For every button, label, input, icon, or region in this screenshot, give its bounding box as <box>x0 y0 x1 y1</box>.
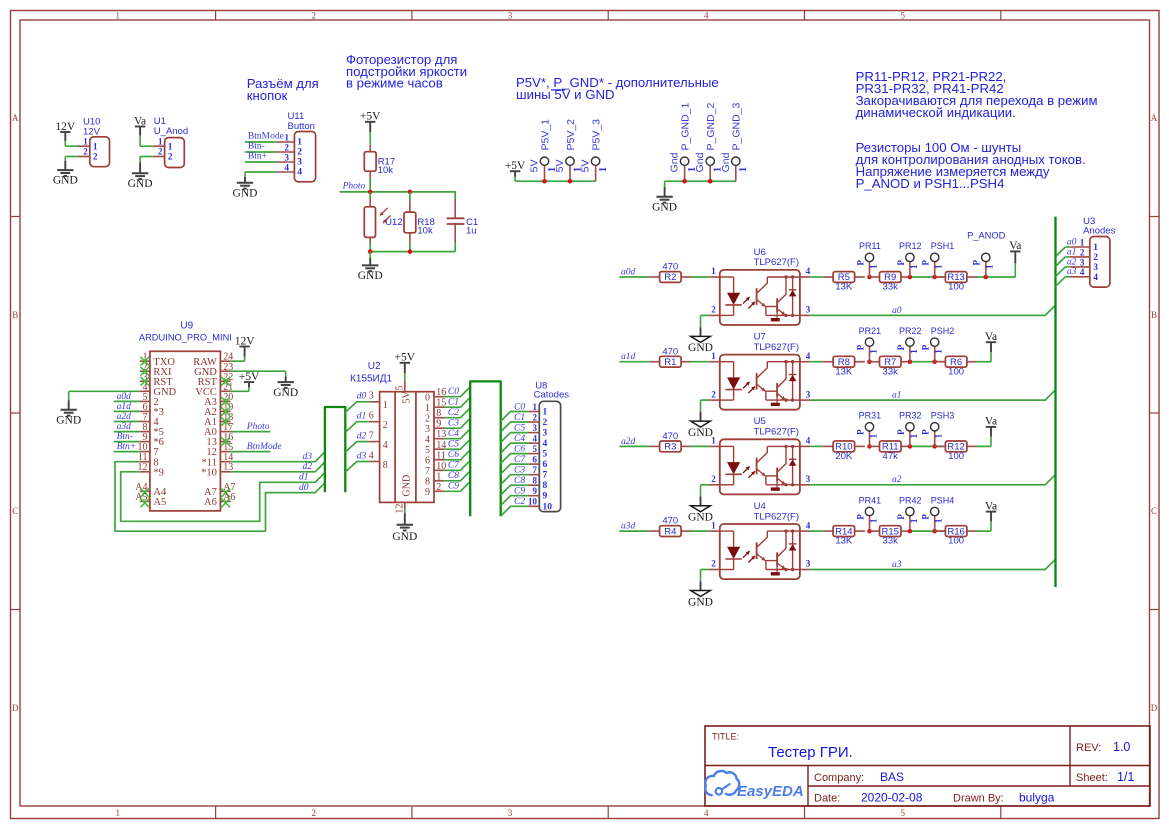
svg-text:47k: 47k <box>883 451 899 462</box>
svg-text:GND: GND <box>652 201 677 213</box>
svg-text:6: 6 <box>369 411 374 422</box>
svg-text:20K: 20K <box>835 451 853 462</box>
svg-text:4: 4 <box>383 440 388 451</box>
svg-text:C0: C0 <box>448 387 459 397</box>
svg-text:R1: R1 <box>664 357 676 368</box>
svg-text:10: 10 <box>543 502 553 512</box>
svg-text:8: 8 <box>533 476 538 486</box>
svg-text:C2: C2 <box>448 408 459 418</box>
svg-text:P: P <box>855 260 865 266</box>
svg-text:динамической индикации.: динамической индикации. <box>856 105 1016 120</box>
svg-text:2: 2 <box>383 420 388 431</box>
svg-text:10: 10 <box>528 497 538 507</box>
svg-text:100: 100 <box>948 282 964 293</box>
svg-text:5: 5 <box>543 450 548 460</box>
svg-text:P5V_1: P5V_1 <box>539 119 551 151</box>
svg-text:13K: 13K <box>835 536 853 547</box>
svg-text:в режиме часов: в режиме часов <box>346 76 443 91</box>
svg-text:5: 5 <box>900 10 905 20</box>
svg-text:a3: a3 <box>1067 267 1077 277</box>
svg-text:A6: A6 <box>204 497 217 508</box>
svg-text:3: 3 <box>806 305 811 315</box>
svg-text:1: 1 <box>158 136 163 146</box>
svg-text:4: 4 <box>806 520 811 530</box>
svg-text:Anodes: Anodes <box>1083 225 1115 236</box>
svg-text:C5: C5 <box>514 423 525 433</box>
svg-text:*9: *9 <box>153 467 164 478</box>
svg-text:PR42: PR42 <box>899 495 922 505</box>
svg-text:a3d: a3d <box>621 522 636 532</box>
svg-text:7: 7 <box>425 466 430 477</box>
svg-text:1/1: 1/1 <box>1117 770 1134 784</box>
svg-text:1: 1 <box>985 264 995 269</box>
svg-text:2: 2 <box>711 474 716 484</box>
svg-text:1: 1 <box>909 349 919 354</box>
svg-text:PR11: PR11 <box>859 241 881 251</box>
svg-text:BtnMode: BtnMode <box>248 132 284 142</box>
svg-text:C8: C8 <box>514 476 525 486</box>
svg-text:d0: d0 <box>357 392 367 402</box>
svg-text:U5: U5 <box>754 416 766 427</box>
svg-text:5: 5 <box>395 386 406 391</box>
svg-text:2: 2 <box>543 418 548 428</box>
svg-text:C6: C6 <box>514 444 525 454</box>
svg-text:*10: *10 <box>201 467 217 478</box>
svg-text:3: 3 <box>533 423 538 433</box>
svg-text:P_GND_1: P_GND_1 <box>680 102 692 150</box>
svg-text:1: 1 <box>934 518 944 523</box>
svg-text:PSH4: PSH4 <box>931 495 955 505</box>
svg-text:1: 1 <box>1080 237 1085 247</box>
svg-text:C9: C9 <box>514 487 525 497</box>
svg-text:2: 2 <box>1093 253 1098 263</box>
svg-text:GND: GND <box>358 270 383 282</box>
svg-text:470: 470 <box>662 516 678 527</box>
svg-text:EasyEDA: EasyEDA <box>737 783 804 800</box>
svg-text:d1: d1 <box>299 473 309 483</box>
svg-text:D: D <box>1151 703 1158 713</box>
svg-text:Va: Va <box>134 115 146 127</box>
svg-text:U2: U2 <box>368 361 381 372</box>
svg-text:PR22: PR22 <box>899 326 922 336</box>
svg-text:P5V_3: P5V_3 <box>591 119 603 151</box>
svg-text:C9: C9 <box>448 482 459 492</box>
svg-text:TLP627(F): TLP627(F) <box>754 257 799 268</box>
svg-text:10k: 10k <box>378 165 394 176</box>
svg-text:33k: 33k <box>883 536 899 547</box>
svg-text:PR21: PR21 <box>859 326 882 336</box>
svg-text:10: 10 <box>436 461 446 472</box>
svg-text:Va: Va <box>985 416 997 428</box>
svg-text:Va: Va <box>985 331 997 343</box>
svg-text:2: 2 <box>83 147 88 157</box>
svg-text:P: P <box>896 260 906 266</box>
svg-text:1: 1 <box>436 471 441 482</box>
svg-text:d1: d1 <box>357 412 367 422</box>
svg-text:1: 1 <box>934 349 944 354</box>
svg-text:a2: a2 <box>1067 257 1077 267</box>
svg-text:Date:: Date: <box>814 793 840 805</box>
svg-text:1: 1 <box>297 138 302 148</box>
svg-text:d3: d3 <box>357 451 367 461</box>
svg-text:GND: GND <box>56 414 81 426</box>
svg-text:a0d: a0d <box>621 267 636 277</box>
svg-text:a1d: a1d <box>117 402 132 412</box>
svg-text:Va: Va <box>985 500 997 512</box>
svg-text:a2d: a2d <box>621 437 636 447</box>
svg-text:Btn+: Btn+ <box>117 442 137 452</box>
svg-text:1: 1 <box>868 264 878 269</box>
svg-text:C3: C3 <box>514 466 525 476</box>
svg-text:B: B <box>1151 310 1157 320</box>
svg-text:12V: 12V <box>235 335 256 347</box>
svg-text:кнопок: кнопок <box>247 88 288 103</box>
svg-text:A5: A5 <box>153 497 166 508</box>
svg-text:A: A <box>12 113 19 123</box>
svg-text:U9: U9 <box>180 321 193 332</box>
svg-text:1: 1 <box>116 808 121 818</box>
svg-text:5: 5 <box>425 445 430 456</box>
svg-text:3: 3 <box>806 389 811 399</box>
svg-text:TLP627(F): TLP627(F) <box>754 427 799 438</box>
svg-text:6: 6 <box>543 460 548 470</box>
svg-text:3: 3 <box>508 808 513 818</box>
svg-text:C0: C0 <box>514 402 525 412</box>
svg-text:4: 4 <box>543 439 548 449</box>
svg-text:GND: GND <box>53 175 78 187</box>
svg-text:U4: U4 <box>754 501 766 512</box>
svg-text:P_ANOD и PSH1...PSH4: P_ANOD и PSH1...PSH4 <box>856 176 1005 191</box>
svg-text:d2: d2 <box>303 462 313 472</box>
svg-text:GND: GND <box>688 596 713 608</box>
svg-text:4: 4 <box>369 450 374 461</box>
svg-text:Тестер ГРИ.: Тестер ГРИ. <box>768 744 853 761</box>
svg-text:D: D <box>12 703 19 713</box>
svg-text:3: 3 <box>1080 257 1085 267</box>
svg-text:P: P <box>921 514 931 520</box>
svg-text:2: 2 <box>436 482 441 493</box>
svg-text:1: 1 <box>868 518 878 523</box>
svg-text:12V: 12V <box>55 121 76 133</box>
svg-text:GND: GND <box>273 387 298 399</box>
svg-text:bulyga: bulyga <box>1019 791 1055 805</box>
svg-text:1: 1 <box>711 436 716 446</box>
svg-text:33k: 33k <box>883 366 899 377</box>
svg-text:6: 6 <box>533 455 538 465</box>
svg-text:2: 2 <box>533 412 538 422</box>
svg-text:1: 1 <box>934 433 944 438</box>
svg-text:P: P <box>855 429 865 435</box>
svg-text:P: P <box>896 429 906 435</box>
svg-text:A: A <box>1151 113 1158 123</box>
svg-text:4: 4 <box>425 434 430 445</box>
svg-text:5V: 5V <box>529 160 541 173</box>
svg-text:U_Anod: U_Anod <box>154 126 188 137</box>
svg-text:2020-02-08: 2020-02-08 <box>861 791 923 805</box>
svg-text:Button: Button <box>288 121 315 132</box>
svg-text:C4: C4 <box>514 434 525 444</box>
svg-text:3: 3 <box>369 391 374 402</box>
svg-text:4: 4 <box>806 436 811 446</box>
svg-text:5: 5 <box>533 444 538 454</box>
svg-text:ARDUINO_PRO_MINI: ARDUINO_PRO_MINI <box>139 332 232 342</box>
svg-text:U7: U7 <box>754 332 766 343</box>
svg-text:a3: a3 <box>892 560 902 570</box>
svg-text:d2: d2 <box>357 431 367 441</box>
svg-text:4: 4 <box>704 10 709 20</box>
svg-text:1: 1 <box>711 520 716 530</box>
svg-text:9: 9 <box>425 487 430 498</box>
svg-text:a2d: a2d <box>117 412 132 422</box>
svg-text:C2: C2 <box>514 497 525 507</box>
svg-text:P5V_2: P5V_2 <box>565 119 577 151</box>
svg-text:PR12: PR12 <box>899 241 922 251</box>
svg-text:Gnd: Gnd <box>720 152 732 172</box>
svg-text:1: 1 <box>711 266 716 276</box>
svg-text:A6: A6 <box>223 492 235 503</box>
svg-text:GND: GND <box>128 178 153 190</box>
svg-text:d0: d0 <box>299 483 309 493</box>
svg-text:P_GND_3: P_GND_3 <box>731 102 743 150</box>
svg-text:C4: C4 <box>448 429 459 439</box>
svg-text:3: 3 <box>297 158 302 168</box>
svg-text:Gnd: Gnd <box>694 152 706 172</box>
svg-text:TLP627(F): TLP627(F) <box>754 342 799 353</box>
svg-text:P: P <box>855 514 865 520</box>
svg-text:P: P <box>896 514 906 520</box>
svg-text:P_ANOD: P_ANOD <box>967 231 1006 241</box>
svg-text:Catodes: Catodes <box>534 390 570 401</box>
svg-text:1: 1 <box>909 518 919 523</box>
svg-text:33k: 33k <box>883 282 899 293</box>
svg-text:3: 3 <box>806 474 811 484</box>
svg-text:Sheet:: Sheet: <box>1076 772 1108 784</box>
svg-text:7: 7 <box>369 430 374 441</box>
svg-text:8: 8 <box>383 460 388 471</box>
svg-text:10k: 10k <box>417 225 433 236</box>
svg-text:C5: C5 <box>448 440 459 450</box>
svg-text:4: 4 <box>533 434 538 444</box>
svg-text:13K: 13K <box>835 366 853 377</box>
svg-text:1: 1 <box>93 142 98 152</box>
svg-text:Gnd: Gnd <box>669 152 681 172</box>
svg-text:Photo: Photo <box>342 181 366 191</box>
svg-text:3: 3 <box>806 559 811 569</box>
svg-text:0: 0 <box>425 392 430 403</box>
svg-text:1: 1 <box>738 167 749 172</box>
svg-text:Va: Va <box>1009 240 1021 252</box>
svg-text:P: P <box>855 344 865 350</box>
svg-text:a2: a2 <box>892 475 902 485</box>
svg-text:100: 100 <box>948 366 964 377</box>
svg-text:1.0: 1.0 <box>1113 740 1130 754</box>
svg-text:a1: a1 <box>1067 247 1077 257</box>
svg-text:4: 4 <box>704 808 709 818</box>
svg-text:P: P <box>896 344 906 350</box>
svg-text:1: 1 <box>909 264 919 269</box>
svg-text:BtnMode: BtnMode <box>247 442 282 452</box>
svg-text:GND: GND <box>688 427 713 439</box>
svg-text:8: 8 <box>543 481 548 491</box>
svg-text:PR31: PR31 <box>859 411 882 421</box>
svg-text:3: 3 <box>285 152 290 162</box>
svg-text:Drawn By:: Drawn By: <box>953 793 1004 805</box>
svg-text:2: 2 <box>297 148 302 158</box>
svg-text:3: 3 <box>425 424 430 435</box>
svg-text:шины 5V и GND: шины 5V и GND <box>516 87 615 102</box>
svg-text:4: 4 <box>806 266 811 276</box>
svg-text:C1: C1 <box>514 413 525 423</box>
svg-text:GND: GND <box>688 512 713 524</box>
svg-text:9: 9 <box>533 486 538 496</box>
svg-text:C1: C1 <box>448 398 459 408</box>
svg-text:4: 4 <box>1093 273 1098 283</box>
svg-text:P: P <box>921 260 931 266</box>
svg-text:1: 1 <box>533 402 538 412</box>
svg-text:GND: GND <box>401 475 412 497</box>
svg-text:3: 3 <box>508 10 513 20</box>
svg-text:1: 1 <box>285 132 290 142</box>
svg-text:C7: C7 <box>448 461 460 471</box>
svg-text:7: 7 <box>543 471 548 481</box>
svg-text:1: 1 <box>598 167 609 172</box>
svg-text:U6: U6 <box>754 247 766 258</box>
svg-text:2: 2 <box>93 153 98 163</box>
svg-text:TITLE:: TITLE: <box>712 732 739 742</box>
svg-text:2: 2 <box>711 305 716 315</box>
svg-text:GND: GND <box>392 531 417 543</box>
svg-text:+5V: +5V <box>505 160 526 172</box>
svg-text:+5V: +5V <box>395 352 416 364</box>
svg-text:Photo: Photo <box>246 422 270 432</box>
svg-text:6: 6 <box>425 455 430 466</box>
svg-text:16: 16 <box>436 387 446 398</box>
svg-text:13K: 13K <box>835 282 853 293</box>
svg-text:1: 1 <box>168 142 173 152</box>
svg-text:100: 100 <box>948 451 964 462</box>
svg-text:8: 8 <box>436 408 441 419</box>
svg-text:+5V: +5V <box>360 111 381 123</box>
svg-text:1: 1 <box>934 264 944 269</box>
svg-text:3: 3 <box>543 429 548 439</box>
svg-text:C6: C6 <box>448 450 459 460</box>
svg-text:2: 2 <box>711 559 716 569</box>
svg-text:P: P <box>921 429 931 435</box>
svg-text:5V: 5V <box>580 160 592 173</box>
svg-text:a1d: a1d <box>621 352 636 362</box>
svg-text:P_GND_2: P_GND_2 <box>705 102 717 150</box>
svg-text:13: 13 <box>436 429 446 440</box>
svg-text:9: 9 <box>543 492 548 502</box>
svg-text:8: 8 <box>425 476 430 487</box>
svg-text:R3: R3 <box>664 442 676 453</box>
svg-text:PSH2: PSH2 <box>931 326 955 336</box>
svg-text:P: P <box>972 260 982 266</box>
svg-text:4: 4 <box>1080 267 1085 277</box>
svg-text:PSH3: PSH3 <box>931 411 955 421</box>
svg-text:12: 12 <box>395 504 406 514</box>
svg-text:B: B <box>12 310 18 320</box>
svg-text:4: 4 <box>806 351 811 361</box>
svg-text:C3: C3 <box>448 419 459 429</box>
svg-text:11: 11 <box>436 450 446 461</box>
svg-text:U12: U12 <box>385 217 402 228</box>
svg-text:2: 2 <box>312 10 317 20</box>
svg-text:PSH1: PSH1 <box>931 241 955 251</box>
svg-text:1: 1 <box>425 403 430 414</box>
svg-text:470: 470 <box>662 262 678 273</box>
svg-text:4: 4 <box>285 162 290 172</box>
svg-text:2: 2 <box>425 413 430 424</box>
svg-text:R4: R4 <box>664 526 676 537</box>
svg-text:2: 2 <box>312 808 317 818</box>
svg-text:4: 4 <box>297 168 302 178</box>
svg-text:P: P <box>921 344 931 350</box>
svg-text:1u: 1u <box>466 225 477 236</box>
svg-text:a3d: a3d <box>117 422 132 432</box>
svg-text:1: 1 <box>543 408 548 418</box>
svg-text:1: 1 <box>868 433 878 438</box>
svg-text:5V: 5V <box>554 160 566 173</box>
svg-text:R2: R2 <box>664 272 676 283</box>
svg-text:100: 100 <box>948 536 964 547</box>
svg-text:PR41: PR41 <box>859 495 882 505</box>
svg-text:14: 14 <box>436 440 446 451</box>
svg-text:15: 15 <box>436 398 446 409</box>
svg-text:a1: a1 <box>892 391 902 401</box>
svg-text:REV:: REV: <box>1076 742 1101 754</box>
svg-text:C8: C8 <box>448 471 459 481</box>
svg-text:5: 5 <box>900 808 905 818</box>
svg-text:9: 9 <box>436 419 441 430</box>
svg-text:470: 470 <box>662 431 678 442</box>
svg-text:Btn-: Btn- <box>117 432 133 442</box>
svg-text:2: 2 <box>1080 247 1085 257</box>
svg-text:a0: a0 <box>1067 237 1077 247</box>
svg-text:470: 470 <box>662 346 678 357</box>
svg-text:2: 2 <box>158 147 163 157</box>
svg-text:1: 1 <box>868 349 878 354</box>
svg-text:BAS: BAS <box>880 770 904 784</box>
svg-text:C: C <box>12 506 18 516</box>
svg-text:Company:: Company: <box>814 772 864 784</box>
svg-text:GND: GND <box>688 342 713 354</box>
svg-text:PR32: PR32 <box>899 411 922 421</box>
svg-text:1: 1 <box>116 10 121 20</box>
svg-text:7: 7 <box>533 465 538 475</box>
svg-text:C7: C7 <box>514 455 526 465</box>
svg-text:a0: a0 <box>892 306 902 316</box>
svg-text:GND: GND <box>233 187 258 199</box>
svg-text:Btn+: Btn+ <box>248 152 267 162</box>
svg-text:1: 1 <box>909 433 919 438</box>
svg-text:TLP627(F): TLP627(F) <box>754 511 799 522</box>
svg-text:+5V: +5V <box>239 371 260 383</box>
svg-text:d3: d3 <box>303 452 313 462</box>
svg-text:1: 1 <box>383 400 388 411</box>
svg-text:1: 1 <box>711 351 716 361</box>
svg-text:2: 2 <box>285 142 290 152</box>
svg-text:2: 2 <box>711 389 716 399</box>
svg-text:1: 1 <box>1093 243 1098 253</box>
svg-text:2: 2 <box>168 153 173 163</box>
svg-text:К155ИД1: К155ИД1 <box>350 373 392 384</box>
svg-text:3: 3 <box>1093 263 1098 273</box>
svg-text:1: 1 <box>83 136 88 146</box>
svg-text:Btn-: Btn- <box>248 142 265 152</box>
svg-text:C: C <box>1151 506 1157 516</box>
svg-text:a0d: a0d <box>117 392 132 402</box>
